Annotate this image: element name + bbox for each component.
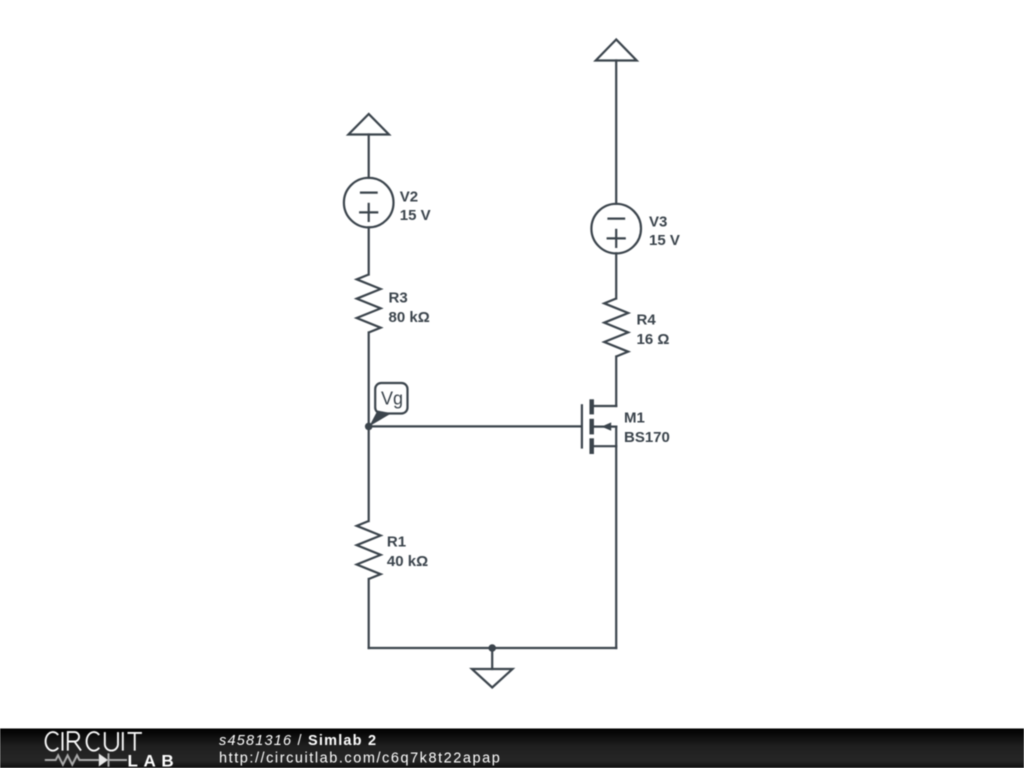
svg-text:V3: V3 xyxy=(649,213,667,230)
svg-text:BS170: BS170 xyxy=(624,429,670,446)
svg-text:R4: R4 xyxy=(637,312,657,329)
svg-text:LAB: LAB xyxy=(128,751,180,768)
svg-text:s4581316 / Simlab 2: s4581316 / Simlab 2 xyxy=(219,733,377,749)
svg-text:R3: R3 xyxy=(389,290,408,307)
svg-text:16 Ω: 16 Ω xyxy=(637,331,670,348)
svg-text:80 kΩ: 80 kΩ xyxy=(389,309,430,326)
svg-text:R1: R1 xyxy=(387,534,406,551)
svg-text:Vg: Vg xyxy=(381,389,403,409)
svg-text:15 V: 15 V xyxy=(649,232,680,249)
svg-text:M1: M1 xyxy=(624,410,645,427)
svg-text:40 kΩ: 40 kΩ xyxy=(387,553,428,570)
svg-text:V2: V2 xyxy=(400,188,418,205)
svg-text:http://circuitlab.com/c6q7k8t2: http://circuitlab.com/c6q7k8t22apap xyxy=(219,751,501,767)
svg-text:15 V: 15 V xyxy=(400,207,431,224)
